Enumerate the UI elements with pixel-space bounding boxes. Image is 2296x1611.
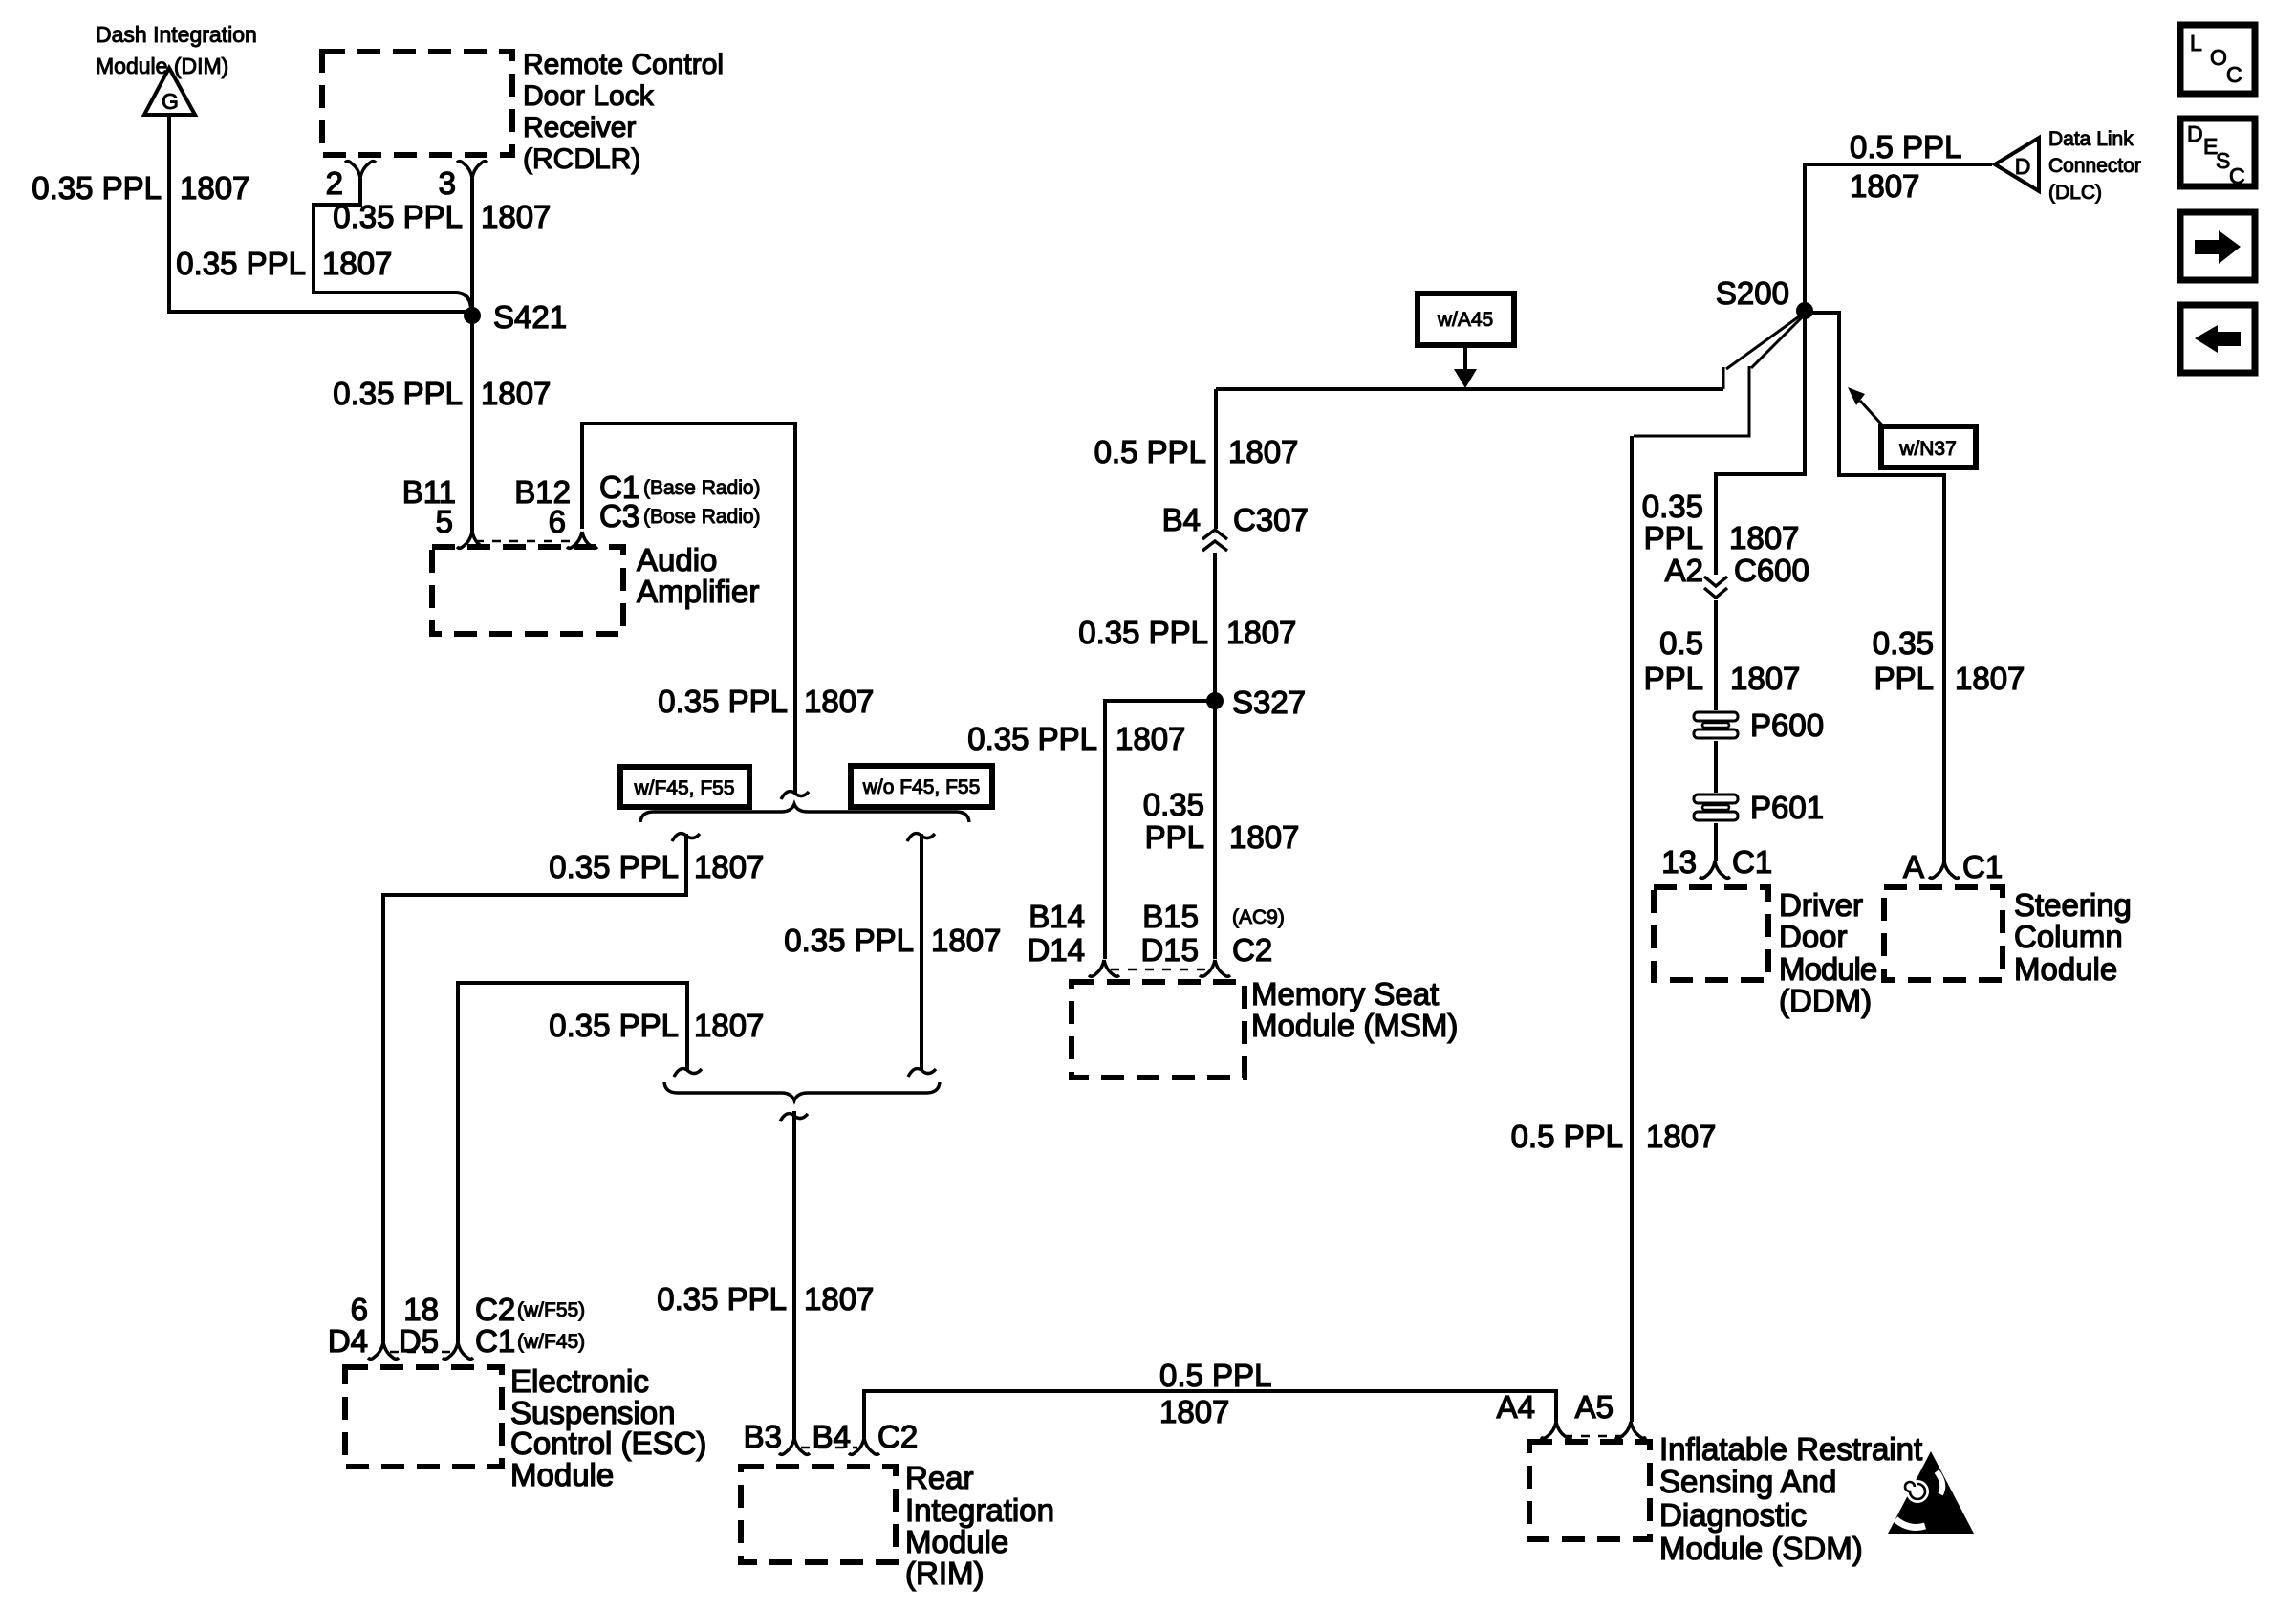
svg-text:0.35 PPL: 0.35 PPL [658,684,788,719]
wire ESC pin 18/D5 branch [458,983,687,1342]
label 0.5 PPL 1807 (DLC wire) [1850,129,1961,204]
label Dash Integration Module (DIM) [96,22,257,78]
svg-text:Audio: Audio [637,542,717,577]
svg-text:Column: Column [2014,919,2123,954]
label 0.5 PPL 1807 (C307 wire) [1094,434,1299,469]
svg-text:Electronic: Electronic [510,1363,649,1399]
svg-text:0.35 PPL: 0.35 PPL [32,170,162,206]
wire S327 to MSM B15 [1213,703,1217,959]
pin A / C1 (Steering Column Module) [1903,849,2003,884]
svg-text:w/N37: w/N37 [1898,438,1957,460]
svg-text:0.35 PPL: 0.35 PPL [657,1281,787,1317]
svg-text:Sensing And: Sensing And [1659,1464,1836,1499]
svg-text:0.35: 0.35 [1143,787,1204,822]
label 0.35 PPL 1807 (pin 2 wire) [176,246,392,281]
svg-text:P601: P601 [1750,790,1824,825]
svg-text:0.35 PPL: 0.35 PPL [176,246,306,281]
svg-text:S327: S327 [1232,685,1306,720]
svg-text:0.5 PPL: 0.5 PPL [1159,1358,1271,1393]
svg-text:0.35 PPL: 0.35 PPL [333,376,463,411]
module box Steering Column Module [1884,887,2003,980]
svg-text:1807: 1807 [694,849,764,884]
svg-text:(DDM): (DDM) [1779,983,1872,1018]
svg-text:0.35 PPL: 0.35 PPL [549,849,679,884]
svg-text:(DLC): (DLC) [2048,182,2102,204]
svg-text:1807: 1807 [1955,661,2025,696]
svg-text:(RCDLR): (RCDLR) [523,143,640,175]
dashed pin line (RIM) [801,1447,857,1448]
dashed pin line (ESC) [390,1351,451,1353]
svg-text:C: C [2226,62,2242,87]
dashed pin line (Audio Amplifier) [475,540,578,542]
svg-text:1807: 1807 [1729,520,1799,555]
svg-text:C2: C2 [475,1292,515,1327]
svg-text:1807: 1807 [804,1281,874,1317]
option box w/N37 with arrow [1848,387,1976,468]
label connector C1 C3 (Audio Amplifier) [599,469,761,533]
wire S421 to Audio Amplifier B11 [470,316,474,532]
svg-text:C1: C1 [1962,849,2003,884]
grommet P600 [1692,708,1824,743]
svg-text:2: 2 [326,165,343,201]
wire C307 to S327 [1213,553,1217,699]
svg-text:C2: C2 [1232,932,1272,968]
svg-text:B4: B4 [812,1419,851,1454]
svg-text:A4: A4 [1497,1389,1535,1425]
brace upper (split) [640,804,969,822]
label 0.35 PPL 1807 (C307 to S327) [1078,615,1296,650]
svg-text:S200: S200 [1716,275,1789,311]
pin B3 (RIM) [744,1419,810,1454]
svg-text:0.35 PPL: 0.35 PPL [1078,615,1208,650]
svg-text:1807: 1807 [1850,168,1919,204]
svg-text:0.5 PPL: 0.5 PPL [1511,1119,1623,1154]
wire RCDLR pin 3 to S421 [470,178,474,313]
svg-text:D: D [2187,121,2203,146]
svg-text:(Base Radio): (Base Radio) [643,477,761,499]
svg-text:Module: Module [905,1524,1008,1559]
svg-text:1807: 1807 [322,246,392,281]
svg-text:1807: 1807 [1646,1119,1716,1154]
svg-text:B4: B4 [1162,502,1201,537]
junction S421 [464,299,567,335]
label 0.35 PPL 1807 (pin 3 wire) [333,199,551,234]
svg-text:Dash Integration: Dash Integration [96,22,257,47]
pin B4 (RIM) [812,1419,879,1454]
legend box arrow right [2180,212,2255,280]
svg-text:P600: P600 [1750,708,1824,743]
junction S200 [1716,275,1813,319]
svg-text:D5: D5 [399,1323,439,1359]
label 0.5 PPL 1807 (C600 to DDM) [1644,625,1801,696]
label 0.35 PPL 1807 (Steering wire) [1873,625,2025,696]
label 0.35 PPL 1807 (RIM wire) [657,1281,874,1317]
svg-text:Diagnostic: Diagnostic [1659,1497,1807,1533]
inline connector C307 symbol [1202,530,1227,551]
label SDM module [1659,1431,1922,1566]
svg-text:0.35 PPL: 0.35 PPL [549,1008,679,1043]
svg-text:C1: C1 [475,1323,515,1359]
wire Audio B12 up and over to branch braces [582,424,795,794]
svg-text:A5: A5 [1575,1389,1614,1425]
svg-text:D15: D15 [1140,932,1199,968]
svg-text:A2: A2 [1665,553,1703,588]
pin B14 / D14 (MSM) [1027,899,1119,976]
grommet P601 [1692,790,1824,825]
label 0.35 PPL 1807 (S327 to B15) [1143,787,1300,855]
svg-text:18: 18 [403,1292,439,1327]
svg-text:1807: 1807 [1228,434,1298,469]
curl top of w/F45 branch [672,834,700,841]
svg-text:0.35 PPL: 0.35 PPL [784,923,914,958]
label 0.35 PPL 1807 (S200 to C600) [1642,489,1800,555]
svg-text:(AC9): (AC9) [1232,906,1285,928]
pin 3 (RCDLR) [439,162,487,201]
svg-text:B15: B15 [1142,899,1199,934]
module box Remote Control Door Lock Receiver (RCDLR) [322,52,512,155]
label 0.5 PPL 1807 (RIM to SDM wire) [1159,1358,1271,1429]
svg-text:1807: 1807 [931,923,1001,958]
svg-text:D4: D4 [328,1323,368,1359]
legend box LOC [2180,25,2255,94]
module box Electronic Suspension Control (ESC) Module [345,1367,502,1467]
svg-text:w/o F45, F55: w/o F45, F55 [862,776,981,798]
svg-text:1807: 1807 [1116,721,1185,756]
svg-text:1807: 1807 [694,1008,764,1043]
svg-text:B14: B14 [1029,899,1085,934]
pin 2 (RCDLR) [326,162,376,201]
svg-text:S421: S421 [493,299,567,335]
wire RCDLR pin 2 to S421 [314,178,472,313]
wire S200 up to DLC [1805,164,1992,309]
svg-text:0.35 PPL: 0.35 PPL [333,199,463,234]
svg-text:0.35: 0.35 [1873,625,1934,661]
junction S327 [1206,685,1306,720]
svg-text:C1: C1 [1732,844,1772,880]
svg-text:5: 5 [436,504,453,539]
svg-text:w/A45: w/A45 [1437,309,1493,331]
svg-text:PPL: PPL [1644,520,1703,555]
wire RIM B4 to SDM A4 [864,1391,1556,1438]
svg-text:0.35: 0.35 [1642,489,1703,524]
curl bottom of ESC D5 branch [674,1069,702,1077]
label RIM module [905,1460,1054,1591]
label ESC module [510,1363,706,1492]
label 0.35 PPL 1807 (ESC D5 branch) [549,1008,764,1043]
label 0.35 PPL 1807 (w/o branch) [784,923,1001,958]
label connector C2 C1 (ESC) [475,1292,585,1359]
svg-text:PPL: PPL [1874,661,1934,696]
svg-text:1807: 1807 [481,376,551,411]
pin 13 / C1 (DDM) [1661,844,1772,880]
svg-text:Module: Module [2014,951,2117,987]
wire long drop to SDM A5 [1630,436,1634,1422]
svg-text:Steering: Steering [2014,887,2132,923]
svg-text:0.5: 0.5 [1659,625,1703,661]
wire C600 to DDM pin 13 [1714,600,1718,861]
label Steering Column Module [2014,887,2132,987]
pin A5 (SDM) [1575,1389,1646,1438]
svg-text:1807: 1807 [1229,819,1299,855]
svg-text:1807: 1807 [1159,1394,1229,1429]
pin 6 / D4 (ESC) [328,1292,399,1359]
wire S200 diagonal to main bus [1723,315,1802,389]
wire S200 to Steering Column Module [1807,313,1944,861]
svg-text:G: G [162,89,179,114]
svg-text:1807: 1807 [180,170,249,206]
svg-text:1807: 1807 [1226,615,1296,650]
label (AC9) C2 (MSM connector) [1232,906,1285,968]
wire S327 to MSM B14 [1105,701,1211,959]
svg-text:C3: C3 [599,498,639,533]
svg-text:Module (DIM): Module (DIM) [96,54,228,78]
svg-text:O: O [2210,45,2227,70]
curl top of w/o F45 branch [907,834,935,841]
label Data Link Connector (DLC) [2048,128,2141,204]
svg-text:C307: C307 [1233,502,1309,537]
module box Rear Integration Module (RIM) [741,1467,896,1562]
dashed pin line (SDM) [1564,1435,1624,1437]
svg-text:Remote Control: Remote Control [523,49,724,80]
svg-text:Module (SDM): Module (SDM) [1659,1531,1863,1566]
option box w/F45, F55 [620,767,749,807]
label 0.35 PPL 1807 (S421 to B11) [333,376,551,411]
svg-text:Amplifier: Amplifier [637,574,759,609]
svg-text:0.5 PPL: 0.5 PPL [1850,129,1961,164]
svg-text:Memory Seat: Memory Seat [1251,976,1439,1012]
svg-text:13: 13 [1661,844,1697,880]
label 0.35 PPL 1807 (S327 to B14) [967,721,1185,756]
wire DIM to S421 [169,115,467,312]
dashed pin line (MSM) [1111,969,1208,970]
airbag warning icon [1888,1451,1974,1534]
svg-text:Module: Module [1779,951,1876,987]
pin B12 / 6 (Audio Amplifier) [514,474,597,548]
svg-text:A: A [1903,849,1924,884]
label 0.5 PPL 1807 (SDM A5 wire) [1511,1119,1717,1154]
connector D triangle (DLC) [1995,138,2039,191]
svg-text:C: C [2229,163,2245,188]
wire main bus corner to C307 [1214,389,1218,529]
svg-text:D: D [2015,154,2031,179]
svg-text:0.35 PPL: 0.35 PPL [967,721,1097,756]
wire merge to RIM B3 [792,1111,796,1438]
svg-text:6: 6 [351,1292,368,1327]
svg-text:Data Link: Data Link [2048,128,2134,150]
pin A4 (SDM) [1497,1389,1571,1438]
wire main bus horizontal [1216,387,1723,391]
wire S200 to DDM A2 [1716,313,1805,575]
svg-text:6: 6 [549,504,566,539]
svg-text:w/F45, F55: w/F45, F55 [633,777,734,799]
module box Inflatable Restraint Sensing And Diagnostic Module (SDM) [1529,1442,1650,1539]
module box Memory Seat Module (MSM) [1072,982,1245,1078]
svg-text:C600: C600 [1734,553,1809,588]
svg-text:Connector: Connector [2048,155,2141,177]
label Audio Amplifier [637,542,759,609]
curl top of RIM drop wire [780,1114,808,1121]
label RCDLR [523,49,724,175]
pin 18 / D5 (ESC) [399,1292,473,1359]
option box w/o F45, F55 [851,766,992,807]
svg-text:Integration: Integration [905,1492,1054,1528]
svg-text:PPL: PPL [1145,819,1204,855]
svg-text:L: L [2190,31,2202,55]
svg-text:Door: Door [1779,919,1848,954]
legend box DESC [2180,119,2255,188]
svg-text:Rear: Rear [905,1460,974,1495]
label DDM module [1779,887,1876,1018]
label A2 C600 [1665,553,1809,588]
curl bottom of w/o branch [908,1069,936,1077]
svg-text:C2: C2 [877,1419,918,1454]
svg-text:(RIM): (RIM) [905,1556,984,1591]
svg-text:Receiver: Receiver [523,112,636,143]
module box Driver Door Module (DDM) [1654,887,1768,980]
svg-text:Control (ESC): Control (ESC) [510,1426,706,1461]
wire S200 diagonal to SDM A5 branch [1634,316,1803,436]
curl at end of B12 wire [781,792,809,799]
legend box arrow left [2180,305,2255,373]
pin B15 / D15 (MSM) [1140,899,1230,976]
label B4 C307 [1162,502,1309,537]
wire w/o F45 branch [920,834,923,1070]
svg-text:(w/F55): (w/F55) [517,1299,585,1321]
svg-text:3: 3 [439,165,456,201]
label MSM module [1251,976,1458,1043]
svg-text:Module: Module [510,1457,614,1492]
svg-text:Inflatable Restraint: Inflatable Restraint [1659,1431,1922,1467]
svg-text:Module (MSM): Module (MSM) [1251,1008,1458,1043]
svg-text:Door Lock: Door Lock [523,80,655,112]
label 0.35 PPL 1807 (B12 wire) [658,684,874,719]
wire w/F45 branch to ESC pin 6/D4 [383,834,686,1342]
brace lower (merge) [664,1082,940,1100]
svg-text:1807: 1807 [481,199,551,234]
svg-text:(w/F45): (w/F45) [517,1331,585,1353]
power symbol G triangle (DIM) [144,68,195,115]
svg-text:(Bose Radio): (Bose Radio) [643,506,761,528]
module box Audio Amplifier [432,547,623,634]
svg-text:0.5 PPL: 0.5 PPL [1094,434,1206,469]
svg-text:1807: 1807 [1730,661,1800,696]
svg-text:B3: B3 [744,1419,782,1454]
pin B11 / 5 (Audio Amplifier) [402,474,487,548]
svg-text:D14: D14 [1027,932,1085,968]
svg-text:Driver: Driver [1779,887,1863,923]
option box w/A45 with arrow [1418,294,1514,388]
label 0.35 PPL 1807 (w/F45 branch) [549,849,764,884]
svg-text:PPL: PPL [1644,661,1703,696]
inline connector C600 symbol [1704,577,1727,598]
svg-text:1807: 1807 [804,684,874,719]
label 0.35 PPL 1807 (DIM wire) [32,170,249,206]
